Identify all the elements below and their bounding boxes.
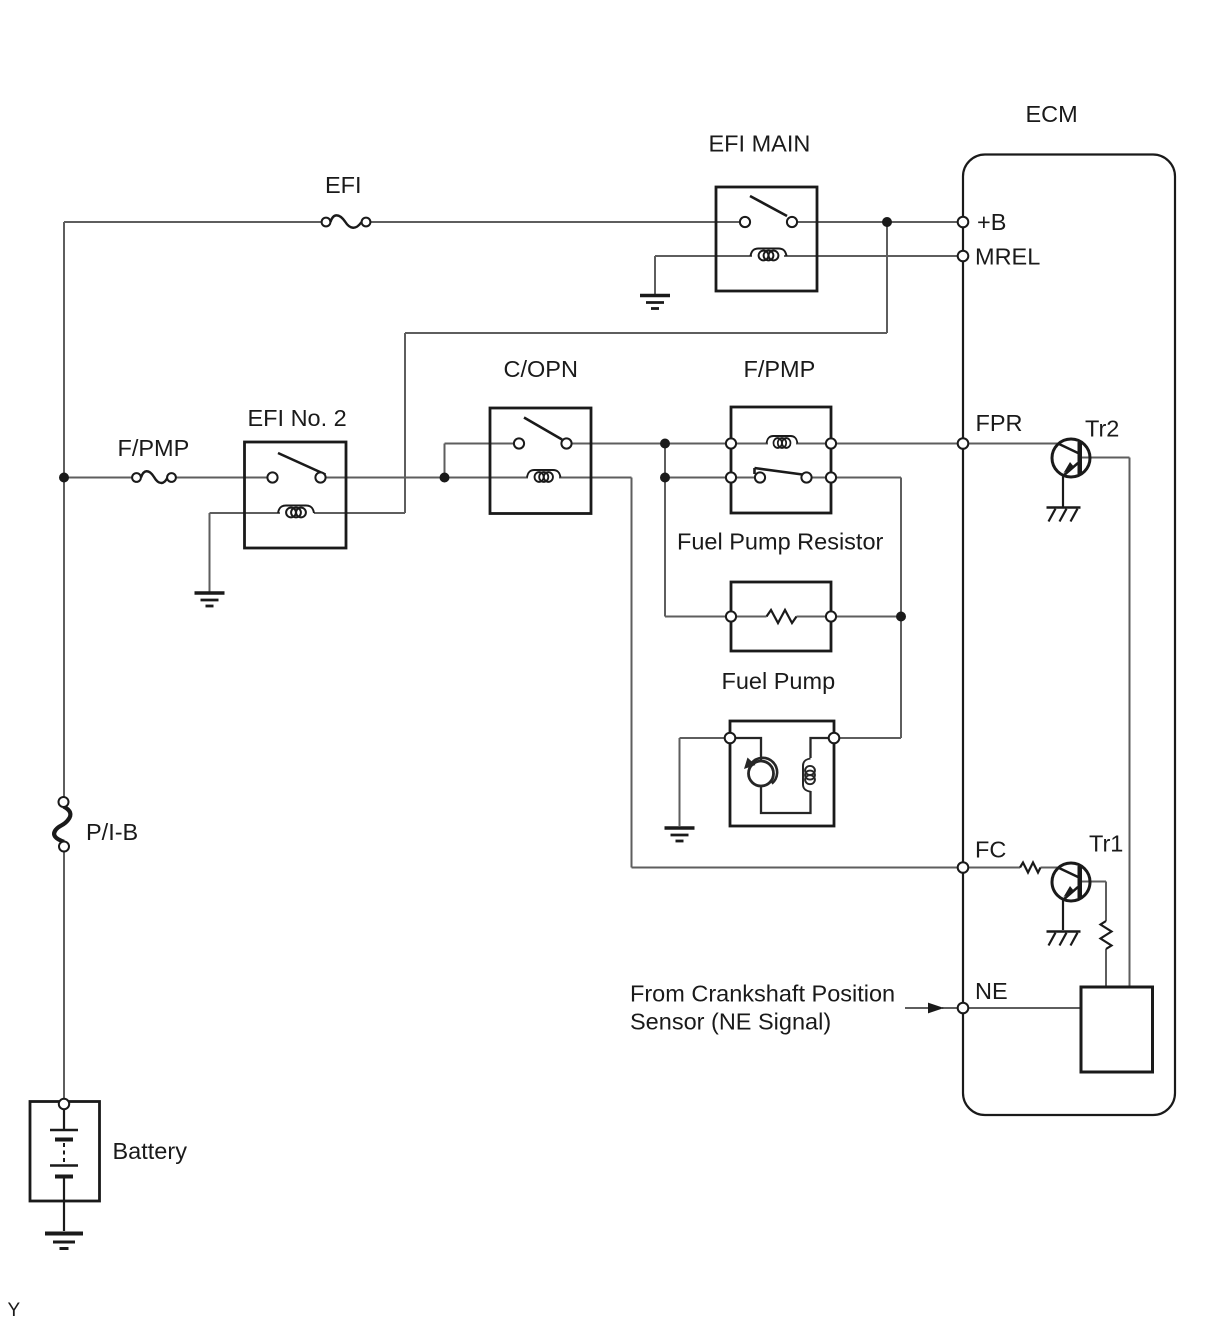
svg-text:Sensor (NE Signal): Sensor (NE Signal)	[630, 1009, 831, 1035]
svg-text:C/OPN: C/OPN	[504, 356, 578, 382]
svg-text:Tr2: Tr2	[1085, 416, 1119, 442]
svg-text:F/PMP: F/PMP	[744, 356, 816, 382]
svg-text:Fuel Pump Resistor: Fuel Pump Resistor	[677, 529, 884, 555]
svg-text:Battery: Battery	[113, 1138, 188, 1164]
svg-text:EFI MAIN: EFI MAIN	[709, 131, 811, 157]
svg-text:ECM: ECM	[1026, 101, 1078, 127]
svg-text:EFI: EFI	[325, 172, 362, 198]
svg-text:NE: NE	[975, 978, 1008, 1004]
svg-text:MREL: MREL	[975, 244, 1040, 270]
svg-text:P/I-B: P/I-B	[86, 819, 138, 845]
svg-text:F/PMP: F/PMP	[118, 435, 190, 461]
svg-text:Fuel Pump: Fuel Pump	[722, 668, 836, 694]
svg-text:Y: Y	[8, 1300, 21, 1321]
svg-text:From Crankshaft Position: From Crankshaft Position	[630, 981, 895, 1007]
svg-text:Tr1: Tr1	[1089, 831, 1123, 857]
svg-text:EFI No. 2: EFI No. 2	[248, 405, 347, 431]
svg-text:FC: FC	[975, 837, 1006, 863]
svg-text:FPR: FPR	[976, 410, 1023, 436]
svg-text:+B: +B	[977, 209, 1006, 235]
